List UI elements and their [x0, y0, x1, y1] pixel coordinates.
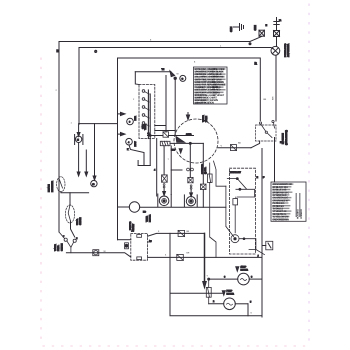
pump motor [209, 298, 248, 316]
wire bleach to unbal [61, 192, 89, 193]
note box 2 text [272, 183, 302, 221]
note box 2 [271, 182, 306, 221]
wire [170, 146, 172, 195]
unbalance switch dashed ellipse [65, 205, 74, 223]
page dotted border bottom [43, 345, 309, 347]
drive motor [209, 273, 262, 285]
water valve dashed circle [174, 119, 218, 163]
junction [148, 133, 150, 135]
note box 2 text underlay [272, 183, 300, 220]
wire middle box left [78, 48, 80, 125]
svg-text:PUSH TO: PUSH TO [129, 221, 132, 230]
valve switch blade [176, 137, 185, 143]
svg-text:GRN: GRN [254, 25, 257, 30]
wire [137, 161, 139, 166]
wire console to connector [118, 239, 131, 241]
wire B [148, 256, 263, 258]
terminal 9 [127, 118, 134, 125]
terminal M [75, 136, 81, 142]
svg-text:LEVEL: LEVEL [57, 244, 60, 251]
wire outer box left [58, 42, 60, 233]
box symbol on wire A [178, 231, 185, 237]
wire unbal down [71, 221, 75, 237]
wire [135, 72, 139, 85]
bus wire [140, 206, 226, 208]
connector dashed box [131, 233, 148, 260]
wire lid sw exit [251, 141, 260, 148]
terminal L1 [274, 18, 282, 31]
wire lower [170, 142, 203, 144]
svg-text:J: J [258, 255, 259, 258]
terminal G [180, 75, 186, 81]
timer dashed box [139, 85, 155, 139]
terminal box [163, 132, 169, 137]
valve coil [160, 141, 170, 145]
bottom loop [170, 233, 262, 315]
bleach contact [59, 179, 63, 189]
terminal N [259, 24, 268, 36]
valve arrow [186, 115, 189, 120]
water level switch [59, 232, 78, 253]
svg-text:COLD: COLD [186, 133, 192, 136]
svg-text:SWITCH: SWITCH [79, 217, 82, 225]
arrowhead [163, 192, 166, 196]
wire lid sw right drop [274, 138, 276, 183]
svg-text:GND GREEN NO: GND GREEN NO [272, 218, 289, 221]
arrowhead [77, 172, 80, 176]
resistor 3 [201, 143, 207, 207]
junction [189, 142, 191, 144]
bleach switch dashed ellipse [57, 177, 65, 192]
svg-text:WATER: WATER [54, 244, 57, 251]
wire [138, 165, 150, 167]
wire from 4 down [129, 145, 144, 166]
svg-text:13.IN OFF POSITION: 13.IN OFF POSITION [194, 101, 214, 104]
component box on right wire [262, 241, 273, 250]
capacitor [206, 278, 211, 304]
wire drop pair [78, 143, 80, 175]
wire middle box top [79, 48, 273, 49]
timer contacts [142, 90, 149, 126]
wire [156, 139, 158, 197]
svg-text:VT VIOLET: VT VIOLET [214, 94, 225, 97]
box symbol on wire B [177, 254, 184, 260]
start switch feed resistor [208, 161, 234, 257]
wire WL to connector [66, 253, 130, 257]
wire inner box left [117, 58, 119, 240]
wire unbal feed [69, 193, 71, 205]
svg-text:CODE NO: CODE NO [300, 209, 303, 219]
svg-text:SWITCH: SWITCH [60, 243, 63, 251]
connector box on wire [231, 145, 237, 151]
terminal 10 [91, 180, 97, 186]
terminal 4 [126, 138, 133, 145]
wire valve to lid sw [218, 147, 251, 149]
svg-text:BK R: BK R [134, 116, 137, 121]
wire drop 10 [94, 124, 96, 177]
svg-text:BLEACH: BLEACH [48, 184, 51, 192]
wire harness y124 [79, 123, 118, 125]
arrowhead [93, 176, 96, 180]
motor grommet 1 [158, 194, 171, 207]
wire [165, 76, 167, 133]
lid switch contacts [259, 120, 274, 137]
unbalance contact [68, 205, 70, 221]
note box 1 text [194, 68, 226, 105]
arrow [121, 133, 126, 136]
start switch dashed box [230, 168, 256, 254]
label pump motor [222, 291, 225, 295]
svg-text:MOTOR: MOTOR [227, 293, 235, 296]
arrowhead [77, 133, 80, 137]
motor grommet 2 [184, 195, 197, 207]
wire [171, 169, 182, 171]
svg-text:120V 60HZ 15A: 120V 60HZ 15A [287, 43, 290, 57]
wire [174, 78, 176, 135]
wire drop M [78, 124, 80, 134]
valve arrow2 [179, 149, 182, 153]
wire inner box right [259, 58, 261, 121]
fuse box [93, 250, 99, 256]
wire A diag [148, 233, 205, 236]
timer motor [118, 202, 140, 212]
svg-text:UNBAL: UNBAL [76, 218, 79, 225]
svg-text:MOTOR: MOTOR [149, 214, 152, 222]
svg-text:PUMP: PUMP [227, 290, 233, 293]
svg-text:DISPENSER: DISPENSER [51, 181, 54, 192]
svg-text:VALVE: VALVE [205, 116, 208, 122]
svg-text:(2) COIL: (2) COIL [204, 166, 207, 174]
plug [271, 37, 280, 122]
valve wire upper [148, 135, 164, 137]
terminal M [274, 31, 280, 37]
note box 1 [194, 67, 228, 104]
page dotted border left [40, 58, 42, 346]
wire timer to center [155, 125, 166, 127]
arrow [121, 112, 126, 115]
resistor 1 [162, 146, 168, 192]
wire pump top [170, 292, 224, 294]
wire [169, 135, 194, 137]
wire inner box top [118, 57, 260, 59]
wire console loop [135, 71, 171, 73]
connector pins [125, 235, 142, 260]
svg-text:MOTOR: MOTOR [241, 269, 249, 272]
junction [174, 77, 176, 79]
wire timer to center 2 [155, 130, 175, 132]
junction [249, 43, 251, 45]
arrowhead [190, 193, 193, 197]
solenoid terminal circles [187, 168, 190, 171]
wire A bold drop [204, 233, 206, 283]
svg-text:MOTOR SW: MOTOR SW [230, 171, 242, 174]
start switch internals [227, 178, 264, 255]
svg-text:START: START [132, 223, 135, 230]
lid switch dashed box [256, 125, 277, 141]
ground [234, 24, 244, 31]
svg-text:GRN: GRN [230, 27, 233, 32]
right vertical wire [261, 149, 263, 318]
svg-text:POWER CORD: POWER CORD [284, 43, 287, 57]
note box 1 text underlay [194, 68, 225, 103]
wire outer box top [59, 37, 262, 42]
resistor 2 [188, 143, 193, 193]
wire [149, 139, 151, 166]
svg-text:WATER: WATER [202, 115, 205, 122]
svg-text:1/2 HP: 1/2 HP [241, 266, 247, 269]
label drive motor [236, 267, 239, 271]
arrowhead [170, 71, 175, 77]
svg-text:CAM: CAM [142, 124, 145, 129]
timer internal wires [147, 90, 149, 139]
page dotted border right [308, 4, 310, 346]
svg-text:TIMER: TIMER [146, 216, 149, 222]
